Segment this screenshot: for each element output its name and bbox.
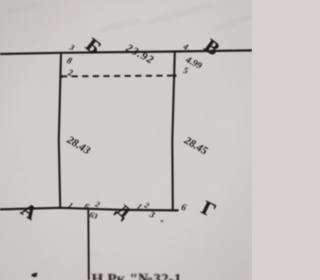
left boundary line (Б side vertical) [59, 53, 61, 208]
dashed line right end dot [173, 74, 176, 77]
dashed line left end dot [59, 75, 62, 78]
svg-text:Н.Рк "№32-1: Н.Рк "№32-1 [92, 272, 182, 280]
right boundary line (В-Г vertical) [172, 52, 175, 211]
faint show-through streaks top area [2, 4, 250, 30]
paper background [0, 0, 252, 280]
fence line below point 6 [87, 210, 90, 280]
stray ink speck [161, 220, 164, 222]
top boundary line Б-В (street line, full width) [0, 50, 252, 54]
cut-off caption fragment left [32, 273, 38, 277]
bottom boundary line А-Г [0, 208, 179, 211]
cut-off caption text [92, 272, 182, 280]
dashed inner line (5m construction line) [61, 75, 175, 78]
